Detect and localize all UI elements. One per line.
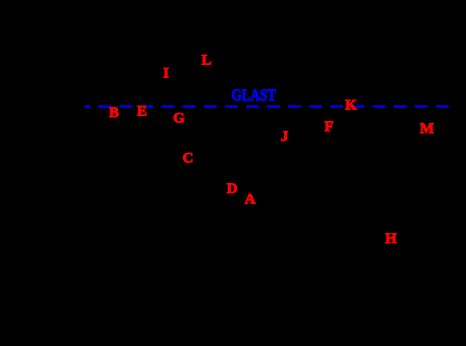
svg-text:K: K [345,98,357,114]
svg-text:B: B [109,105,119,121]
svg-text:D: D [227,181,238,197]
GLAST orbit axis dashed line [85,105,451,107]
svg-text:I: I [163,66,169,82]
svg-text:GLAST: GLAST [232,86,277,105]
svg-text:J: J [281,129,289,145]
svg-text:C: C [183,151,194,167]
svg-text:F: F [324,119,333,135]
svg-text:A: A [245,192,256,208]
svg-text:M: M [420,121,434,137]
svg-text:E: E [137,104,147,120]
svg-text:G: G [173,111,185,127]
svg-text:H: H [385,231,397,247]
svg-text:L: L [201,53,211,69]
